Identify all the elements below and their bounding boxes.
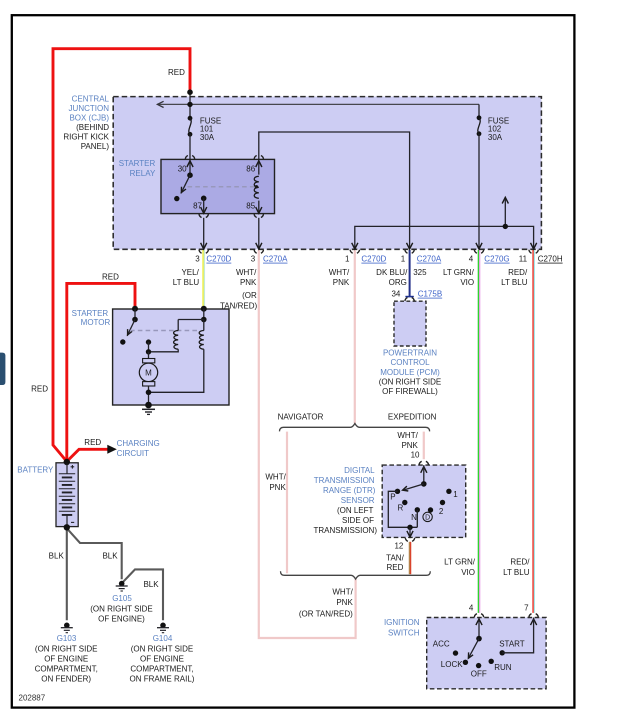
svg-text:PNK: PNK: [401, 441, 418, 450]
relay pin 85 wire out: [258, 201, 260, 214]
svg-text:(ON RIGHT SIDE: (ON RIGHT SIDE: [379, 377, 442, 386]
svg-text:G103: G103: [57, 634, 77, 643]
svg-text:SIDE OF: SIDE OF: [342, 516, 374, 525]
svg-text:COMPARTMENT,: COMPARTMENT,: [35, 665, 98, 674]
svg-text:ACC: ACC: [433, 639, 450, 648]
svg-text:BATTERY: BATTERY: [17, 465, 54, 474]
svg-text:PNK: PNK: [333, 278, 350, 287]
svg-text:WHT/: WHT/: [265, 473, 286, 482]
svg-text:4: 4: [469, 604, 474, 613]
battery minus sign: [71, 521, 74, 523]
svg-text:(OR TAN/RED): (OR TAN/RED): [299, 609, 353, 618]
svg-text:LT GRN/: LT GRN/: [443, 268, 475, 277]
DTR contact 1: [446, 489, 451, 494]
svg-text:85: 85: [246, 202, 255, 211]
svg-text:OF ENGINE: OF ENGINE: [44, 655, 88, 664]
svg-text:OF FIREWALL): OF FIREWALL): [382, 387, 438, 396]
wire BLK G104 to G105: [123, 569, 163, 620]
wire WHT/PNK expedition branch to DTR pin 10: [423, 432, 425, 460]
ignition contact ACC: [453, 650, 458, 655]
svg-text:NAVIGATOR: NAVIGATOR: [278, 413, 324, 422]
wire WHT/PNK (OR TAN/RED) C270A-3 to splice: [259, 250, 356, 638]
svg-text:TRANSMISSION: TRANSMISSION: [314, 476, 375, 485]
svg-text:POWERTRAIN: POWERTRAIN: [383, 349, 437, 358]
motor M1 armature: [148, 352, 150, 359]
junction node at CJB entry: [187, 89, 193, 95]
battery negative node: [64, 524, 70, 530]
svg-text:IGNITION: IGNITION: [384, 618, 420, 627]
ground G105: [119, 581, 125, 587]
DTR pin 10 connector arc: [419, 461, 428, 465]
wire TAN/RED DTR pin 12 to splice: [408, 542, 410, 574]
junction node bus: [503, 224, 508, 229]
svg-text:LT GRN/: LT GRN/: [444, 557, 476, 566]
ignition START to pin 7 wire: [502, 618, 533, 653]
svg-text:LT BLU: LT BLU: [503, 568, 530, 577]
svg-text:C270D: C270D: [206, 255, 231, 264]
svg-text:34: 34: [391, 290, 400, 299]
svg-text:PANEL): PANEL): [81, 142, 110, 151]
svg-text:COMPARTMENT,: COMPARTMENT,: [130, 665, 193, 674]
wire fuse 102 to C270G exit: [478, 134, 480, 250]
relay pin 86 connector arc: [254, 156, 263, 160]
powertrain control module (PCM) box: [394, 301, 426, 346]
svg-text:RELAY: RELAY: [130, 169, 156, 178]
svg-text:WHT/: WHT/: [332, 588, 353, 597]
svg-text:STARTER: STARTER: [72, 309, 109, 318]
svg-text:1: 1: [401, 255, 406, 264]
PCM wire end T-bar: [405, 296, 413, 298]
svg-text:RANGE (DTR): RANGE (DTR): [323, 486, 376, 495]
svg-text:DIGITAL: DIGITAL: [344, 466, 375, 475]
starter relay box: [161, 159, 275, 213]
ignition contact START: [500, 650, 505, 655]
svg-text:10: 10: [411, 450, 420, 459]
svg-text:1: 1: [453, 490, 458, 499]
splice brace top (navigator/expedition): [280, 424, 430, 432]
svg-text:START: START: [499, 639, 525, 648]
svg-text:RIGHT KICK: RIGHT KICK: [63, 132, 109, 141]
starter solenoid hold coil: [203, 320, 205, 331]
svg-text:LT BLU: LT BLU: [501, 278, 528, 287]
ignition switch blade: [468, 639, 479, 659]
svg-text:R: R: [398, 504, 404, 513]
ground G104: [160, 623, 166, 629]
svg-text:RED/: RED/: [510, 557, 530, 566]
CJB exit arrow and connector arc at x=533.6: [531, 243, 537, 249]
svg-text:TAN/: TAN/: [386, 553, 404, 562]
wire CJB feed with left continuation arrow: [157, 103, 479, 105]
left edge navy tab: [0, 353, 5, 385]
svg-text:3: 3: [195, 255, 200, 264]
svg-text:OF ENGINE): OF ENGINE): [98, 615, 145, 624]
fuse 102 30A: [477, 115, 482, 120]
svg-text:ON FRAME RAIL): ON FRAME RAIL): [130, 675, 195, 684]
svg-text:RED: RED: [387, 563, 404, 572]
svg-text:OFF: OFF: [471, 670, 487, 679]
svg-text:RUN: RUN: [494, 663, 512, 672]
svg-text:N: N: [411, 513, 417, 522]
wire RED battery to CJB (left loop): [53, 49, 190, 462]
svg-text:D: D: [425, 515, 430, 522]
svg-text:VIO: VIO: [460, 278, 474, 287]
svg-text:ORG: ORG: [389, 278, 407, 287]
svg-text:CONTROL: CONTROL: [390, 358, 430, 367]
svg-text:C270D: C270D: [361, 255, 386, 264]
DTR contact R: [402, 500, 407, 505]
relay actuation dashed line: [188, 186, 256, 188]
CJB exit arrow and connector arc at x=479: [476, 243, 482, 249]
svg-text:325: 325: [413, 268, 427, 277]
DTR circled D position label: [423, 512, 432, 521]
svg-text:PNK: PNK: [240, 278, 257, 287]
relay pin 30 connector arc: [185, 156, 194, 160]
svg-text:ON FENDER): ON FENDER): [41, 675, 91, 684]
hold coil return wire: [149, 349, 204, 392]
svg-text:JUNCTION: JUNCTION: [69, 104, 110, 113]
ignition contact RUN: [489, 659, 494, 664]
svg-text:BLK: BLK: [102, 552, 118, 561]
svg-text:BLK: BLK: [143, 580, 159, 589]
wire LT GRN/VIO C270G-4 to ignition switch: [477, 250, 479, 613]
relay pin 87 node: [201, 196, 207, 202]
starter motor actuation dashed line: [130, 330, 199, 332]
bus continuation arrow up: [504, 199, 506, 227]
starter motor box: [113, 309, 229, 405]
svg-text:87: 87: [193, 202, 202, 211]
DTR contact N: [415, 507, 420, 512]
wire WHT/PNK navigator branch: [286, 432, 288, 574]
svg-text:30: 30: [178, 165, 187, 174]
DTR P-N to pin 12 wiring: [388, 491, 417, 527]
svg-text:11: 11: [519, 255, 528, 264]
svg-text:BLK: BLK: [49, 552, 65, 561]
relay switch contact node: [174, 196, 179, 201]
svg-text:12: 12: [394, 541, 403, 550]
wire BLK battery to G103: [66, 527, 68, 620]
svg-text:YEL/: YEL/: [181, 268, 199, 277]
svg-text:G105: G105: [112, 594, 132, 603]
svg-text:1: 1: [345, 255, 350, 264]
svg-text:M: M: [145, 369, 152, 378]
wire RED battery to starter motor: [67, 283, 135, 461]
relay switch blade: [181, 175, 190, 193]
svg-text:RED: RED: [168, 68, 185, 77]
svg-text:VIO: VIO: [461, 568, 475, 577]
svg-text:(ON RIGHT SIDE: (ON RIGHT SIDE: [35, 644, 98, 653]
svg-text:MOTOR: MOTOR: [81, 318, 111, 327]
svg-text:G104: G104: [153, 634, 173, 643]
DTR contact D: [428, 507, 433, 512]
ignition switch box: [427, 618, 546, 689]
svg-text:C175B: C175B: [418, 290, 442, 299]
wire RED/LT BLU C270H-11 to ignition switch: [532, 250, 534, 613]
svg-text:WHT/: WHT/: [329, 268, 350, 277]
svg-text:CENTRAL: CENTRAL: [72, 94, 110, 103]
svg-text:C270G: C270G: [484, 255, 509, 264]
svg-text:(ON RIGHT SIDE: (ON RIGHT SIDE: [131, 644, 194, 653]
svg-text:OF ENGINE: OF ENGINE: [140, 655, 184, 664]
wire WHT/PNK C270D-1 to brace: [354, 250, 356, 423]
svg-text:TRANSMISSION): TRANSMISSION): [313, 526, 377, 535]
wire RED battery to charging circuit: [67, 449, 108, 461]
ignition pin 4 connector arc: [474, 614, 483, 618]
svg-text:(ON LEFT: (ON LEFT: [337, 506, 374, 515]
svg-text:SENSOR: SENSOR: [341, 496, 375, 505]
ignition contact OFF: [476, 663, 481, 668]
ignition common node: [476, 636, 482, 642]
svg-text:86: 86: [246, 165, 255, 174]
svg-text:2: 2: [439, 507, 444, 516]
junction node feed line: [187, 102, 192, 107]
svg-text:PNK: PNK: [336, 598, 353, 607]
svg-text:7: 7: [524, 604, 529, 613]
svg-text:RED: RED: [84, 438, 101, 447]
relay pin 30 node: [187, 172, 193, 178]
svg-text:P: P: [390, 493, 395, 502]
svg-text:WHT/: WHT/: [236, 268, 257, 277]
DTR pin 12 connector arc: [405, 538, 414, 542]
CJB internal bus C270D-1 to C270H-11: [355, 226, 534, 249]
splice brace bottom: [281, 571, 431, 579]
svg-text:LOCK: LOCK: [441, 660, 463, 669]
svg-text:STARTER: STARTER: [119, 159, 156, 168]
arrow to charging circuit: [107, 445, 117, 454]
DTR switch blade to P: [403, 484, 424, 490]
ground G103: [64, 623, 70, 629]
svg-text:CHARGING: CHARGING: [117, 439, 160, 448]
starter motor solenoid feed node (YEL/LT BLU): [201, 306, 207, 312]
CJB exit arrow and connector arc at x=258.8: [256, 243, 262, 249]
DTR contact 2: [440, 500, 445, 505]
CJB exit arrow and connector arc at x=354.8: [352, 243, 358, 249]
svg-text:SWITCH: SWITCH: [388, 629, 420, 638]
ignition contact LOCK: [463, 660, 468, 665]
svg-text:C270A: C270A: [417, 255, 442, 264]
svg-text:MODULE (PCM): MODULE (PCM): [380, 368, 440, 377]
svg-text:RED/: RED/: [508, 268, 528, 277]
svg-text:EXPEDITION: EXPEDITION: [388, 413, 437, 422]
fuse 101 30A: [188, 116, 193, 121]
svg-text:BOX (CJB): BOX (CJB): [69, 113, 109, 122]
CJB exit arrow and connector arc at x=409.6: [407, 243, 413, 249]
wire relay 85 to C270A-3 exit: [258, 218, 260, 250]
wire BLK battery to G105: [67, 528, 122, 579]
relay pin 87 wire out: [203, 198, 205, 213]
wire fuse 101 to relay pin 30: [189, 134, 191, 175]
svg-text:C270H: C270H: [538, 255, 563, 264]
svg-text:4: 4: [469, 255, 474, 264]
svg-text:3: 3: [251, 255, 256, 264]
wire red entry down to fuse 101: [189, 92, 191, 118]
starter motor solenoid switch node (battery feed): [132, 306, 138, 312]
relay coil: [254, 176, 259, 198]
svg-text:LT BLU: LT BLU: [173, 278, 200, 287]
digital transmission range (DTR) sensor box: [382, 465, 466, 537]
svg-text:DK BLU/: DK BLU/: [376, 268, 408, 277]
wire relay pin 86 to C270A-1 exit: [259, 132, 410, 249]
DTR contact P: [395, 489, 400, 494]
wire DK BLU/ORG C270A-1 to PCM: [409, 250, 411, 297]
svg-text:RED: RED: [102, 273, 119, 282]
battery box: [56, 463, 78, 527]
battery plus sign: [71, 466, 75, 468]
DTR common node: [421, 481, 427, 487]
svg-text:RED: RED: [31, 385, 48, 394]
starter motor case ground: [145, 402, 152, 409]
wire relay 87 to C270D-3 exit: [203, 218, 205, 250]
svg-text:30A: 30A: [200, 133, 215, 142]
battery positive node: [64, 459, 70, 465]
starter solenoid pull-in coil: [178, 319, 204, 321]
starter motor switch contact node: [120, 339, 125, 344]
svg-text:30A: 30A: [488, 133, 503, 142]
CJB exit arrow and connector arc at x=203.7: [201, 243, 207, 249]
ignition pin 7 connector arc: [529, 614, 538, 618]
svg-text:TAN/RED): TAN/RED): [220, 301, 258, 310]
starter motor switch blade: [127, 320, 135, 336]
solenoid output nodes: [146, 339, 151, 344]
svg-text:C270A: C270A: [263, 255, 288, 264]
svg-text:(BEHIND: (BEHIND: [76, 123, 109, 132]
svg-text:(OR: (OR: [242, 291, 257, 300]
wire YEL/LT BLU C270D-3 to starter motor: [202, 250, 204, 309]
svg-text:(ON RIGHT SIDE: (ON RIGHT SIDE: [90, 605, 153, 614]
PCM connector arc C175B: [405, 298, 414, 302]
svg-text:202887: 202887: [19, 694, 46, 703]
battery plates symbol: [66, 464, 68, 474]
central junction box (CJB) dashed box: [113, 97, 541, 250]
svg-text:WHT/: WHT/: [397, 431, 418, 440]
fuse 102 drop: [478, 104, 480, 117]
svg-text:CIRCUIT: CIRCUIT: [117, 449, 150, 458]
motor ground node: [146, 390, 152, 396]
svg-text:PNK: PNK: [269, 483, 286, 492]
